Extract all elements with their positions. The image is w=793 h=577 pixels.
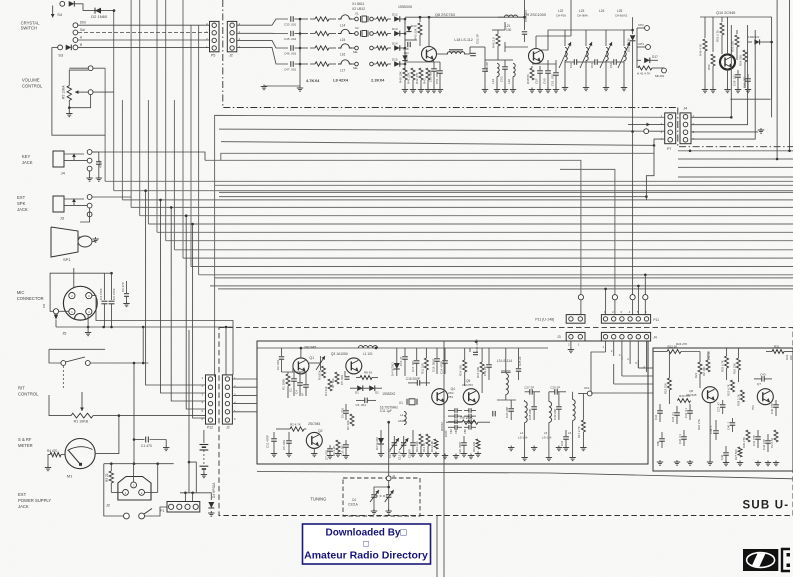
transistor Q7 (757, 389, 773, 405)
wires J2 to box A (232, 378, 257, 380)
svg-text:JACK: JACK (18, 504, 29, 509)
rit wiper arrow onto pot (81, 392, 83, 411)
wire bus pair line y277.9 (215, 277, 793, 279)
connector P11b 6-pin (601, 315, 650, 324)
svg-text:P11 [U-148]: P11 [U-148] (535, 318, 554, 322)
wire J3 pin stub to ground (570, 341, 572, 348)
svg-text:C6 .001: C6 .001 (341, 407, 345, 418)
diode D15 (394, 61, 400, 67)
wire jack switch to P1 (145, 507, 167, 516)
svg-text:D3 W-201: D3 W-201 (375, 437, 379, 450)
svg-text:C5 .001: C5 .001 (282, 439, 286, 450)
capacitor C65 470P (469, 348, 471, 352)
key jack tip contact (87, 150, 92, 155)
resistor H41 4.7K (638, 66, 652, 70)
connector J4 4-pin (680, 113, 691, 144)
transistor Q2 (306, 432, 322, 448)
capacitor C47 .001 (290, 61, 292, 67)
svg-text:Q3 JA1050: Q3 JA1050 (331, 352, 348, 356)
power jack pin 1 (123, 490, 129, 496)
svg-text:C63: C63 (590, 62, 594, 68)
capacitor stack C66 C67 C21 right of Q5 (468, 408, 470, 413)
capacitor C48 .001 (405, 39, 417, 41)
svg-text:R14 22K: R14 22K (459, 365, 463, 376)
wire P7 pin4 jog down to bus (646, 139, 664, 200)
svg-text:Q2: Q2 (318, 429, 323, 433)
svg-text:EXT: EXT (17, 195, 26, 200)
wire vertical bus line 11 (190, 25, 192, 267)
rit switch contact a (61, 361, 66, 366)
wire mic pin4 down (87, 315, 89, 327)
capacitor C57 below Q9 (539, 66, 541, 70)
trimmer capacitor C12 (393, 436, 395, 452)
svg-text:C46 .001: C46 .001 (284, 52, 297, 56)
wire bus pair line y285.9 (210, 285, 793, 287)
svg-text:VOLUME: VOLUME (22, 78, 40, 83)
capacitor C46 vertical (725, 446, 727, 452)
wire upper horizontal bus line b to P7 pin3 (219, 129, 644, 131)
sub-board box A solid outline (257, 341, 648, 464)
svg-text:Q9 2SC1000: Q9 2SC1000 (524, 13, 546, 17)
capacitor C61 .001 (555, 60, 557, 72)
wire bus pair line y288.9 (218, 288, 793, 290)
svg-text:R21: R21 (694, 372, 698, 378)
svg-text:R26 27K: R26 27K (697, 419, 701, 430)
wire volume bottom (68, 101, 70, 108)
resistor R4 33K vertical (328, 379, 332, 391)
svg-text:L8 42X4: L8 42X4 (333, 78, 349, 83)
resistor R33 4.7K (315, 31, 329, 35)
svg-text:METER: METER (18, 443, 33, 448)
resistor R7 72K vertical (335, 372, 339, 384)
capacitor C40 .1 vertical (732, 418, 734, 422)
svg-text:R40 10K: R40 10K (399, 71, 403, 83)
battery B1 cells (203, 430, 205, 443)
resistor R52 2.7K vertical (721, 17, 723, 22)
wire Q10 top rail (700, 16, 770, 18)
svg-text:D16 MA26: D16 MA26 (627, 38, 631, 52)
svg-text:R54 22K: R54 22K (739, 55, 743, 66)
capacitor C9 47P right of mic (126, 281, 128, 293)
resistor R3 22 vertical (109, 471, 113, 483)
crystal X2 (355, 32, 359, 36)
switch contact 1 D00 (73, 23, 78, 28)
svg-text:SEL: SEL (353, 66, 358, 70)
svg-text:C7 .001: C7 .001 (325, 449, 329, 460)
resistor R19 75K vertical (667, 378, 671, 390)
wire S3 down to bus line 1 (52, 46, 58, 48)
resistor R20 27K (678, 399, 691, 403)
svg-text:SUB U-: SUB U- (743, 500, 790, 512)
inductor L15 (338, 29, 352, 33)
inductor L17 (338, 60, 352, 64)
ground below mic pin4 (87, 327, 89, 331)
capacitor C21 470P vertical (273, 432, 275, 438)
svg-text:100: 100 (506, 28, 512, 32)
rit switch lever (66, 357, 86, 362)
svg-text:C9 .001: C9 .001 (356, 403, 367, 407)
capacitor C8b .001 (305, 372, 307, 384)
svg-text:L3 LS-114: L3 LS-114 (497, 359, 513, 363)
svg-text:POWER SUPPLY: POWER SUPPLY (18, 498, 51, 503)
box B feed wires from connector (638, 367, 653, 369)
svg-text:CH-9MA: CH-9MA (577, 14, 588, 18)
transistor Q5 (463, 389, 479, 405)
svg-text:C2 470F: C2 470F (112, 288, 116, 300)
svg-text:R6 10K: R6 10K (346, 420, 350, 430)
svg-text:X1 8611: X1 8611 (352, 2, 364, 6)
svg-text:R7 72K: R7 72K (331, 378, 335, 388)
svg-text:R12 1K: R12 1K (422, 443, 426, 452)
svg-text:CONTROL: CONTROL (18, 392, 39, 397)
wire L22-L25 top rail (560, 29, 624, 31)
resistor R31 220 top right (772, 350, 784, 354)
resistor row 3 2.2K (377, 46, 388, 50)
capacitor C34 .01 vertical (689, 404, 691, 410)
rit switch dashed link (62, 366, 64, 390)
svg-text:C2 2.7K: C2 2.7K (770, 438, 774, 448)
wire oscillator row 2 (237, 32, 288, 34)
svg-text:Sal: Sal (80, 28, 85, 32)
svg-text:D4 HPS0A: D4 HPS0A (212, 482, 216, 498)
wire right-side bus line e (678, 150, 793, 152)
resistor R15 220 vertical (476, 439, 480, 449)
wire D16 vertical down to P11b (632, 132, 634, 295)
svg-text:J4: J4 (683, 107, 687, 111)
svg-text:R1 10KB: R1 10KB (74, 420, 89, 424)
wire vertical bus line 10 (182, 0, 184, 258)
svg-text:100P: 100P (444, 430, 448, 437)
svg-text:784: 784 (448, 395, 453, 399)
svg-text:D17: D17 (652, 55, 658, 59)
svg-text:D15: D15 (392, 58, 398, 62)
ground below volume pot (68, 108, 70, 112)
capacitor C60 .001 (547, 60, 549, 70)
wire vertical bus line 9 (173, 100, 175, 250)
transistor Q6 (702, 387, 718, 403)
resistor row 1 2.2K (377, 17, 388, 21)
capacitor C19 vertical (463, 436, 465, 442)
wire oscillator output bus vertical (404, 19, 406, 70)
switch S4 wiper arrow (52, 6, 54, 18)
capacitor C30 20P (558, 392, 560, 406)
svg-text:D1: D1 (355, 391, 359, 395)
module boundary top unit dash-dot (223, 0, 678, 108)
svg-text:C11 1µF: C11 1µF (380, 409, 392, 413)
logo black mark (743, 549, 778, 571)
wire horizontal bus line 5 (140, 215, 793, 217)
svg-text:B: B (80, 43, 82, 47)
svg-text:C18 .0047: C18 .0047 (432, 358, 436, 372)
capacitor C33 .001 (290, 16, 292, 22)
resistor R24 7K top (667, 350, 681, 354)
svg-text:16.7027MHz: 16.7027MHz (380, 406, 398, 410)
diode D34 vertical (402, 55, 407, 60)
svg-text:C45 47P: C45 47P (770, 403, 774, 414)
wire L3 bottom to filters (497, 399, 516, 401)
svg-text:MFJ01: MFJ01 (655, 74, 665, 78)
resistor R35 4.7K (315, 62, 329, 66)
resistor R28 2.2K vertical (740, 390, 744, 402)
resistor R8 39 (360, 376, 372, 380)
variable capacitor C4a (373, 490, 375, 494)
svg-text:CF1: CF1 (584, 386, 590, 390)
resistor R27 500 vertical (738, 447, 742, 457)
resistor F3C 2.7K vertical (774, 430, 778, 442)
svg-text:753: 753 (751, 405, 755, 410)
mic keyway notch (75, 314, 86, 319)
svg-text:H.41 4.7K: H.41 4.7K (637, 72, 650, 76)
svg-text:CN: CN (42, 304, 46, 308)
wire P1 row to diode D4 (180, 493, 211, 500)
resistor R41 22K vertical (411, 68, 415, 80)
wire tuning split (374, 481, 389, 490)
svg-text:C61 .001: C61 .001 (551, 73, 555, 86)
wire Q9 emitter row (532, 63, 556, 65)
transistor Q1 (293, 358, 309, 374)
capacitor C42 47P vertical (767, 434, 769, 440)
svg-text:1S553X6: 1S553X6 (398, 5, 412, 9)
svg-text:CP4: CP4 (638, 42, 644, 46)
trimmer capacitor C13 (403, 436, 405, 452)
svg-text:R11 22K: R11 22K (420, 363, 424, 374)
svg-text:C15 200P: C15 200P (406, 377, 420, 381)
transistor Q9 2SC1000 (529, 49, 544, 64)
capacitor C1 .001 (293, 372, 295, 378)
wire box A top rail (257, 347, 548, 349)
svg-text:X1: X1 (399, 401, 403, 405)
capacitor C26 20P (510, 400, 512, 408)
resistor R54 22K vertical (743, 50, 747, 62)
volume terminal top circle (88, 66, 93, 71)
wires J5b pins down (605, 341, 607, 352)
resistor R50 vertical (712, 17, 714, 52)
svg-text:Q1: Q1 (309, 356, 314, 360)
wire upper horizontal bus line c to P7 pin4 jog (221, 142, 654, 146)
terminal circle MP1 (662, 68, 667, 73)
ground below C8 (98, 176, 100, 178)
svg-text:S & RF: S & RF (18, 437, 32, 442)
diode D33 vertical (404, 19, 406, 24)
ground at speaker (92, 241, 96, 243)
spk jack contact arrow (73, 199, 75, 206)
svg-text:R23 4.7K: R23 4.7K (727, 384, 731, 396)
svg-text:C52 3P: C52 3P (476, 34, 480, 44)
svg-text:L1 101: L1 101 (363, 352, 373, 356)
wire Q8 collector top (405, 16, 525, 18)
wire top rail to D16 (624, 29, 633, 31)
wire J4 pin4 out (691, 30, 755, 139)
junction column at row 4 (299, 64, 301, 68)
mic pin 4 (86, 309, 92, 315)
key jack body J4 (53, 151, 64, 167)
ground below L23 (585, 70, 587, 86)
wire vertical x437 lower (436, 516, 438, 577)
ground right of C1 (165, 440, 167, 447)
svg-text:P11: P11 (653, 318, 659, 322)
connector J2 4-pin (227, 21, 237, 51)
svg-text:C64: C64 (609, 62, 613, 68)
logo bracket glyph (782, 549, 790, 571)
transistor Q3 (346, 358, 362, 374)
capacitor C2 .001 left column (281, 348, 283, 356)
svg-text:C82: C82 (449, 429, 453, 434)
power switch below jack (124, 513, 130, 519)
svg-text:2SC763: 2SC763 (462, 383, 473, 387)
svg-text:□: □ (363, 539, 369, 549)
transistor Q4 (432, 389, 448, 405)
svg-text:S4: S4 (57, 12, 63, 17)
svg-text:C68 .023: C68 .023 (733, 74, 737, 86)
crystal X4 (355, 62, 359, 66)
svg-text:R3 22: R3 22 (105, 473, 109, 482)
resistor R48 vertical below Q9 (530, 68, 534, 80)
ground below battery (203, 473, 205, 475)
capacitor C9 .001 (364, 398, 366, 404)
wire Q9 collector to L22 row (541, 30, 560, 50)
wire J4 pin1 out (691, 116, 731, 118)
wire vertical bus line 7 (156, 0, 158, 232)
wire right-side bus line h (678, 176, 793, 178)
capacitor C51 .0047 vertical (439, 62, 441, 70)
svg-text:L5: L5 (544, 431, 548, 435)
svg-text:J2: J2 (226, 426, 230, 430)
svg-text:S3: S3 (58, 53, 64, 58)
power jack pin 2 (139, 490, 145, 496)
svg-text:C321A: C321A (348, 503, 359, 507)
diode D1 (69, 1, 75, 7)
svg-text:C2 .001: C2 .001 (276, 359, 280, 370)
svg-text:C40 .1: C40 .1 (727, 421, 731, 430)
terminal circle CP4 (646, 45, 651, 50)
svg-text:C53: C53 (500, 76, 504, 82)
svg-text:R19 75K: R19 75K (663, 383, 667, 394)
svg-text:D4 WZ061: D4 WZ061 (391, 362, 395, 376)
svg-text:C30 20P: C30 20P (553, 409, 557, 420)
svg-text:D13: D13 (392, 27, 398, 31)
svg-text:TUNING: TUNING (310, 497, 326, 502)
svg-text:C21 470P: C21 470P (266, 435, 270, 448)
resistor R16 100 vertical (480, 362, 484, 374)
wire Q10 bottom rail (730, 98, 770, 100)
svg-text:J3: J3 (557, 335, 561, 339)
capacitor C53 .001 (497, 59, 505, 61)
svg-text:D14: D14 (392, 42, 398, 46)
wire long horizontal inside bottom module (257, 472, 793, 479)
wire contact1 to P5 (78, 24, 210, 26)
svg-text:C34 .01: C34 .01 (684, 408, 688, 418)
svg-text:P1: P1 (160, 509, 164, 513)
wire oscillator row 3 (237, 40, 288, 48)
wire from D1 to bus (75, 4, 84, 11)
svg-text:C34 2P: C34 2P (483, 366, 487, 376)
resistor R21 10K vertical (698, 362, 702, 374)
svg-text:6DPX2: 6DPX2 (440, 422, 444, 431)
diode D3 arrow at S3 (66, 45, 72, 51)
sub-board box B solid outline (653, 348, 793, 471)
svg-text:R27 500: R27 500 (734, 449, 738, 460)
svg-text:SEL: SEL (353, 50, 358, 54)
wire rit top (49, 348, 105, 350)
capacitor C45 .001 (290, 31, 292, 36)
wire right-side line y185 (215, 184, 793, 186)
svg-text:J2: J2 (229, 54, 233, 58)
wire mic pin3 to bus right (92, 296, 233, 375)
resistor R9 100K (462, 420, 478, 424)
svg-text:C51 .0047: C51 .0047 (435, 70, 439, 84)
wire horizontal bus line 8 (166, 240, 793, 242)
capacitor C8 470P at key jack (89, 171, 91, 176)
resistor R23 4.7K vertical (731, 380, 735, 392)
resistor R14 22K vertical (463, 360, 467, 372)
wire horizontal bus line 2 (114, 190, 793, 192)
inductor L2 vertical (404, 411, 406, 424)
svg-text:CH-P1K: CH-P1K (556, 14, 566, 18)
svg-text:C54 8P: C54 8P (485, 62, 489, 72)
svg-text:Q10 2C945: Q10 2C945 (716, 11, 735, 15)
capacitor C27b .47 vertical (722, 400, 724, 404)
svg-text:C60: C60 (543, 78, 547, 84)
svg-text:CONTROL: CONTROL (22, 84, 43, 89)
svg-text:C86: C86 (463, 429, 467, 434)
svg-text:L4: L4 (520, 431, 524, 435)
resistor R43 22K vertical (419, 17, 421, 22)
svg-text:C25 2F: C25 2F (518, 356, 522, 366)
svg-text:R5 10KA: R5 10KA (62, 85, 66, 99)
wire right-side bus line f (678, 158, 793, 160)
svg-text:R2 10K: R2 10K (702, 367, 706, 376)
resistor R12 1K vertical (426, 434, 430, 446)
wire mic pin2 up (73, 268, 75, 288)
wire oscillator row 1 (237, 19, 288, 25)
resistor R53 22K vertical (736, 30, 738, 34)
capacitor C54 8P vertical (476, 46, 485, 48)
capacitor C1 470 (134, 439, 145, 441)
svg-text:C83: C83 (454, 429, 458, 434)
grounds in box B (659, 460, 661, 462)
inductor L14 (338, 15, 352, 19)
inductor L25 trimmer (623, 30, 625, 46)
junction column at row 2 (299, 34, 301, 38)
mic connector J5 shell circle (63, 286, 97, 320)
switch contact 2 (73, 30, 78, 35)
svg-text:L16: L16 (340, 53, 346, 57)
wire rit pot right to P12 (93, 415, 206, 417)
diode D4 HR50A (208, 502, 214, 508)
inductor L23 trimmer (585, 30, 587, 46)
svg-text:C16 47: C16 47 (399, 356, 403, 366)
svg-text:D33: D33 (411, 24, 417, 28)
wire horizontal bus line 12 (199, 274, 793, 276)
ground below L24 (605, 70, 607, 86)
wire mic bottom rail (56, 326, 233, 328)
wire contact4 to P5 (78, 46, 210, 48)
switch S4 contact circle (60, 1, 65, 6)
wire stub above P11b pin1 (605, 289, 607, 315)
wire spk ring down to speaker (80, 208, 90, 222)
resistor R17 2.7K vertical (581, 420, 585, 432)
resistor R3 82K vertical (322, 366, 326, 378)
wire vertical bus line 6 (147, 100, 149, 224)
svg-text:C33 .01: C33 .01 (671, 412, 675, 422)
diode D16 MA26 vertical (632, 17, 634, 34)
svg-text:L25: L25 (617, 9, 623, 13)
capacitor C56 .047 vertical (522, 31, 527, 33)
wire CP feeds vertical (636, 28, 638, 68)
wire horizontal bus line 4 (131, 206, 793, 208)
ground for oscillator rows (299, 86, 301, 88)
capacitor C14 470P vertical (444, 348, 446, 360)
